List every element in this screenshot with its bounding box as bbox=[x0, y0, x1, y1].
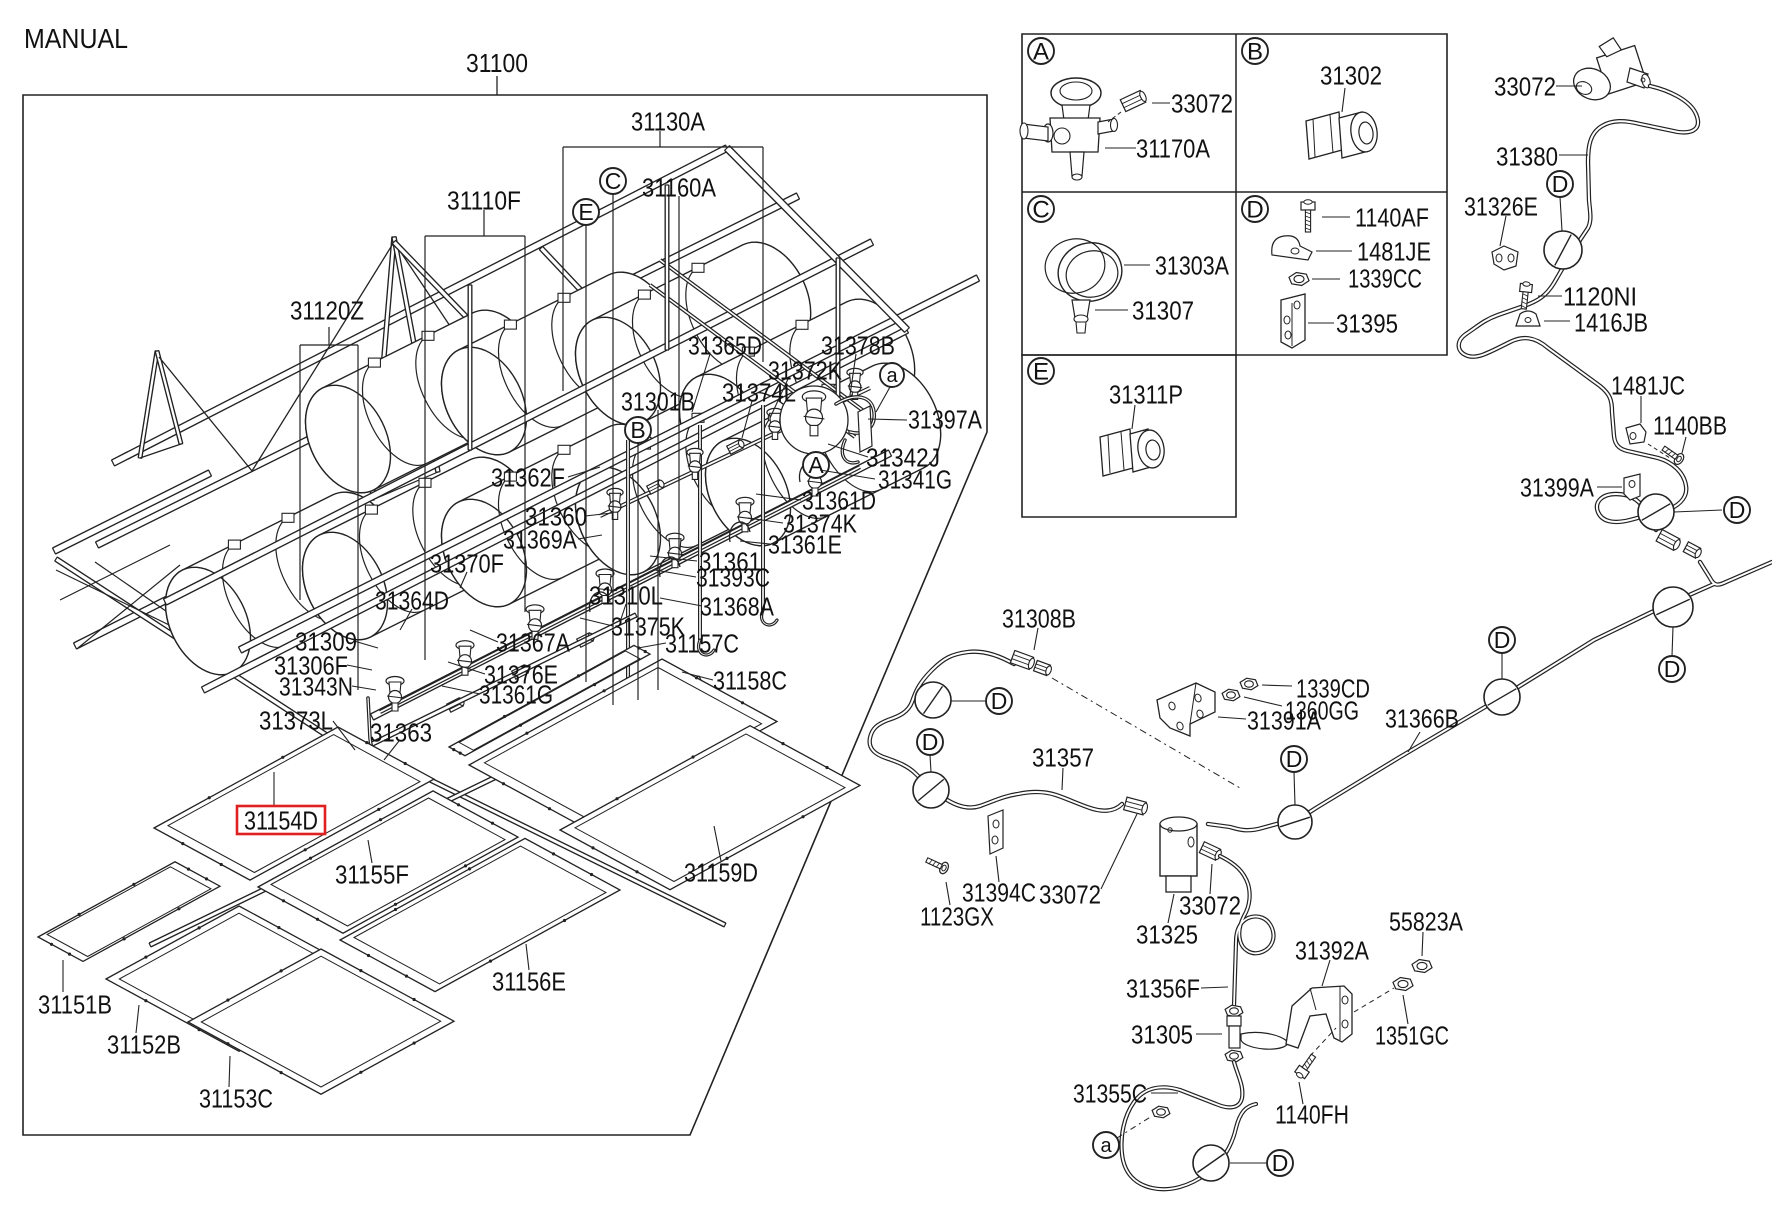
circled D below bbox=[1672, 627, 1673, 656]
label 31367A bbox=[470, 630, 498, 642]
label 31357 bbox=[1062, 768, 1063, 790]
label 31378B bbox=[850, 354, 856, 395]
tank row top bbox=[306, 310, 541, 493]
svg-text:55823A: 55823A bbox=[1389, 907, 1464, 937]
svg-text:31392A: 31392A bbox=[1295, 936, 1370, 966]
label 31366B bbox=[1408, 732, 1420, 752]
extra stems bbox=[627, 700, 642, 715]
svg-text:C: C bbox=[605, 168, 622, 194]
circled D (31380) bbox=[1560, 197, 1562, 231]
panel 31156E bbox=[340, 838, 620, 991]
svg-text:33072: 33072 bbox=[1039, 880, 1101, 910]
label 31364D bbox=[400, 609, 412, 630]
circled D above mid balloon bbox=[1501, 653, 1503, 679]
floor near rail right bbox=[372, 453, 890, 717]
bracket 31394C bbox=[988, 810, 1003, 854]
label 1140BB bbox=[1682, 437, 1686, 453]
label 31100 bbox=[496, 76, 498, 95]
label 31309 bbox=[354, 641, 378, 648]
label 31342J bbox=[828, 444, 868, 457]
svg-text:31364D: 31364D bbox=[375, 586, 449, 616]
label 31362F bbox=[568, 467, 600, 477]
svg-text:31310L: 31310L bbox=[589, 581, 663, 611]
balloon D on 31357 #1 bbox=[915, 682, 951, 718]
clip 1481JC bbox=[1626, 424, 1646, 444]
svg-text:33072: 33072 bbox=[1494, 72, 1556, 102]
label 33072 (pump) bbox=[1556, 85, 1582, 87]
svg-text:31158C: 31158C bbox=[713, 666, 787, 696]
svg-text:1140BB: 1140BB bbox=[1653, 411, 1727, 441]
label 31361 bbox=[650, 556, 697, 561]
label 31361G bbox=[442, 686, 480, 694]
lower manifold pipe bbox=[380, 467, 860, 712]
label 31158C bbox=[682, 672, 713, 680]
circled D right of loop bbox=[1230, 1162, 1266, 1164]
fitting 33072 (filter outlet) bbox=[1199, 842, 1223, 862]
panel 31159D bbox=[560, 726, 860, 890]
screw 1123GX bbox=[924, 855, 950, 876]
label 31308B (left) bbox=[1034, 628, 1038, 650]
label 31152B bbox=[136, 1005, 139, 1033]
svg-text:D: D bbox=[991, 688, 1008, 714]
dash line bracket to nuts bbox=[1354, 988, 1394, 1012]
floor brace d bbox=[60, 545, 170, 600]
panel 31158C bbox=[469, 659, 777, 827]
label 31160A + leader bbox=[678, 196, 680, 560]
balloon D on 31380 bbox=[1544, 231, 1582, 269]
filter 31325 canister bbox=[1160, 824, 1197, 876]
svg-text:E: E bbox=[578, 199, 593, 225]
pigtail loops bbox=[589, 592, 610, 612]
svg-text:D: D bbox=[922, 729, 939, 755]
label 31392A bbox=[1322, 960, 1330, 986]
label 1416JB bbox=[1544, 320, 1570, 322]
svg-text:1140AF: 1140AF bbox=[1355, 203, 1429, 233]
svg-text:33072: 33072 bbox=[1179, 891, 1241, 921]
main assembly border box bbox=[23, 95, 987, 1135]
tall pipe 3 bbox=[761, 405, 765, 610]
svg-text:D: D bbox=[1494, 627, 1511, 653]
label 33072 (filter inlet) bbox=[1101, 814, 1137, 889]
svg-text:31156E: 31156E bbox=[492, 967, 566, 997]
panel 31153C bbox=[188, 949, 454, 1094]
svg-text:31367A: 31367A bbox=[496, 628, 571, 658]
svg-text:31397A: 31397A bbox=[908, 405, 983, 435]
svg-text:31303A: 31303A bbox=[1155, 251, 1230, 281]
loop pipes near a bbox=[842, 440, 858, 463]
svg-text:31369A: 31369A bbox=[503, 525, 578, 555]
label 31376E bbox=[448, 662, 485, 674]
label 31397A bbox=[868, 419, 907, 420]
svg-text:D: D bbox=[1272, 1150, 1289, 1176]
cell E circled letter bbox=[1028, 358, 1054, 384]
nut 1351GC bbox=[1393, 978, 1413, 991]
svg-text:A: A bbox=[1033, 39, 1049, 66]
svg-text:31399A: 31399A bbox=[1520, 473, 1595, 503]
label 31370F bbox=[460, 572, 467, 588]
cell C circled letter bbox=[1028, 196, 1054, 222]
svg-text:31361E: 31361E bbox=[768, 530, 842, 560]
nut 55823A bbox=[1412, 960, 1432, 973]
svg-text:31301B: 31301B bbox=[621, 387, 695, 417]
balloon D mid bbox=[1484, 679, 1520, 715]
vertical post 1 bbox=[468, 285, 473, 450]
svg-text:1481JC: 1481JC bbox=[1611, 371, 1685, 401]
vertical post 2 bbox=[665, 185, 670, 350]
svg-text:D: D bbox=[1552, 171, 1569, 197]
circled D right of balloon bbox=[1674, 510, 1722, 512]
label 1123GX bbox=[946, 882, 950, 905]
dash centre line to bracket bbox=[1052, 678, 1240, 788]
label 1339CC bbox=[1312, 278, 1340, 280]
svg-text:1351GC: 1351GC bbox=[1375, 1021, 1449, 1051]
hose 31355C loop bbox=[1122, 1062, 1257, 1189]
label 33072 (cell A) bbox=[1152, 102, 1170, 104]
valve 31372K cluster bbox=[780, 386, 848, 454]
bracket 31391A bbox=[1157, 683, 1215, 736]
label 31326E bbox=[1500, 216, 1506, 246]
pipe filter to valve (with pigtail) bbox=[1220, 856, 1274, 1006]
cross member C1 right end bbox=[727, 148, 907, 330]
floor strip u bbox=[150, 678, 700, 945]
svg-text:31170A: 31170A bbox=[1136, 134, 1211, 164]
valve 31305 bbox=[1225, 1005, 1243, 1017]
label 31360 bbox=[585, 513, 612, 516]
svg-text:31395: 31395 bbox=[1336, 309, 1398, 339]
svg-text:31305: 31305 bbox=[1131, 1020, 1193, 1050]
svg-text:31153C: 31153C bbox=[199, 1084, 273, 1114]
svg-text:31361G: 31361G bbox=[479, 680, 553, 710]
cell D circled letter bbox=[1242, 196, 1268, 222]
floor brace b bbox=[78, 565, 180, 648]
label 31374L bbox=[742, 401, 752, 438]
svg-text:31368A: 31368A bbox=[700, 592, 775, 622]
svg-text:31356F: 31356F bbox=[1126, 974, 1200, 1004]
floor strip v bbox=[335, 733, 725, 925]
label 1140FH bbox=[1299, 1082, 1303, 1104]
label 1360GG bbox=[1244, 697, 1282, 706]
bracket 31326E bbox=[1492, 246, 1518, 270]
svg-text:31130A: 31130A bbox=[631, 107, 706, 137]
svg-text:1140FH: 1140FH bbox=[1275, 1100, 1349, 1130]
label 31155F bbox=[368, 840, 372, 863]
svg-text:31363: 31363 bbox=[370, 718, 432, 748]
label 31399A bbox=[1597, 486, 1622, 488]
floor edge v-beam bbox=[56, 559, 380, 770]
label 31374K bbox=[748, 518, 783, 523]
svg-text:31357: 31357 bbox=[1032, 743, 1094, 773]
svg-text:31159D: 31159D bbox=[684, 858, 758, 888]
svg-text:31120Z: 31120Z bbox=[290, 296, 364, 326]
fitting 31308B (left) bbox=[1010, 650, 1036, 670]
frame long rail R3 bbox=[165, 242, 872, 602]
svg-text:31100: 31100 bbox=[466, 48, 528, 78]
circled B bbox=[637, 442, 639, 700]
balloon D near filter bbox=[1278, 805, 1312, 839]
fuel pipe 31366B bbox=[1208, 562, 1772, 830]
svg-text:31362F: 31362F bbox=[491, 463, 565, 493]
coupling 31311P drawing bbox=[1100, 429, 1133, 476]
clamp 1416JB bbox=[1516, 311, 1540, 326]
upper manifold pipe bbox=[600, 388, 870, 516]
bracket 31397A target bbox=[858, 406, 872, 452]
label 31356F bbox=[1201, 987, 1228, 988]
cell A circled letter bbox=[1028, 38, 1054, 64]
label 1351GC bbox=[1403, 995, 1408, 1024]
circled C bbox=[612, 193, 614, 705]
frame long rail R4 bbox=[203, 330, 907, 690]
svg-text:31154D: 31154D bbox=[244, 806, 318, 836]
mast tall triangle bbox=[372, 237, 394, 500]
mast small triangle bbox=[140, 351, 157, 458]
svg-text:a: a bbox=[1100, 1135, 1112, 1157]
pipe 31363 bbox=[368, 698, 388, 762]
label 31369A bbox=[578, 535, 602, 539]
fuel pipe 31380 bbox=[1459, 86, 1698, 530]
label 31156E bbox=[526, 944, 529, 970]
tank row bottom bbox=[165, 492, 400, 675]
circled D above bbox=[930, 755, 931, 772]
frame long rail R2 bbox=[97, 196, 798, 545]
svg-text:31325: 31325 bbox=[1136, 920, 1198, 950]
fitting 33072 in cell A bbox=[1120, 89, 1148, 111]
label 31325 bbox=[1168, 894, 1174, 923]
label 31365D bbox=[692, 354, 710, 412]
label 31310L bbox=[620, 604, 626, 622]
circled a bbox=[1117, 1116, 1152, 1138]
cell B circled letter bbox=[1242, 38, 1268, 64]
label 31307 bbox=[1095, 309, 1128, 311]
label 31159D bbox=[714, 826, 721, 861]
label 31380 bbox=[1559, 154, 1588, 156]
frame long rail R3b bbox=[240, 278, 978, 650]
svg-text:D: D bbox=[1246, 197, 1263, 224]
label 55823A bbox=[1422, 932, 1423, 956]
svg-text:a: a bbox=[886, 365, 898, 387]
nut on 31355C bbox=[1152, 1106, 1170, 1118]
label 31341G bbox=[820, 470, 875, 479]
svg-text:31365D: 31365D bbox=[688, 331, 762, 361]
label 31154D red box bbox=[273, 772, 275, 806]
frame long rail R1 bbox=[113, 148, 727, 463]
panel 31154D bbox=[154, 727, 434, 880]
cross member C2 bbox=[541, 248, 705, 422]
label 31375K bbox=[580, 618, 613, 626]
bracket 31395 bbox=[1281, 294, 1305, 348]
panel 31151B bbox=[38, 862, 220, 962]
bracket 31110F leader bbox=[425, 235, 525, 237]
svg-text:31370F: 31370F bbox=[430, 549, 504, 579]
label 31303A bbox=[1124, 264, 1150, 266]
bracket 31399A bbox=[1624, 474, 1640, 500]
svg-text:31393C: 31393C bbox=[696, 563, 770, 593]
svg-text:D: D bbox=[1664, 656, 1681, 682]
svg-text:31110F: 31110F bbox=[447, 186, 521, 216]
svg-text:31302: 31302 bbox=[1320, 61, 1382, 91]
svg-text:D: D bbox=[1729, 497, 1746, 523]
svg-text:33072: 33072 bbox=[1171, 89, 1233, 119]
clamp 1481JE bbox=[1272, 236, 1312, 260]
balloon D top right bbox=[1653, 587, 1693, 627]
bracket 31120Z leader bbox=[300, 344, 358, 346]
svg-text:31366B: 31366B bbox=[1385, 704, 1459, 734]
svg-text:A: A bbox=[808, 452, 824, 478]
label 31153C bbox=[229, 1056, 230, 1087]
svg-text:31308B: 31308B bbox=[1002, 604, 1076, 634]
label 1120NI bbox=[1538, 295, 1562, 297]
floor brace a bbox=[56, 570, 200, 640]
svg-text:31380: 31380 bbox=[1496, 142, 1558, 172]
label 31306F bbox=[347, 665, 372, 670]
svg-text:31151B: 31151B bbox=[38, 990, 112, 1020]
parts table grid bbox=[1022, 34, 1447, 355]
label 31302 bbox=[1342, 88, 1345, 112]
label 1140AF bbox=[1322, 216, 1350, 218]
right end pipe v2 bbox=[650, 285, 855, 437]
circled E bbox=[585, 225, 587, 682]
label 1339CD bbox=[1262, 685, 1292, 686]
tall pipe 31310L bbox=[626, 440, 630, 700]
label 31361D bbox=[756, 494, 801, 500]
svg-text:31374L: 31374L bbox=[722, 378, 796, 408]
bolt 1140FH bbox=[1294, 1052, 1319, 1080]
label 33072 (outlet) bbox=[1210, 864, 1212, 894]
label 31355C bbox=[1151, 1092, 1178, 1094]
rail 31373L bbox=[229, 615, 636, 814]
svg-text:1339CC: 1339CC bbox=[1348, 264, 1422, 294]
label 31157C bbox=[638, 643, 666, 648]
circled D right bbox=[951, 700, 985, 702]
fitting 31307 stem bbox=[1072, 300, 1090, 318]
circled a bbox=[876, 387, 890, 412]
panel 31157C strip bbox=[449, 645, 650, 755]
svg-text:31355C: 31355C bbox=[1073, 1079, 1147, 1109]
svg-text:B: B bbox=[1247, 39, 1263, 66]
fitting 33072 (filter inlet) bbox=[1124, 797, 1149, 815]
svg-text:31311P: 31311P bbox=[1109, 380, 1183, 410]
label 31151B bbox=[62, 960, 64, 992]
tall pipe 2 bbox=[698, 425, 702, 640]
svg-text:E: E bbox=[1033, 359, 1049, 386]
cross member C3 bbox=[394, 242, 563, 417]
bracket 31392A bbox=[1286, 986, 1352, 1048]
label 31391A bbox=[1218, 717, 1246, 719]
svg-text:1416JB: 1416JB bbox=[1574, 308, 1648, 338]
bolt 1140AF bbox=[1301, 200, 1315, 232]
valve row upper bbox=[607, 488, 623, 496]
balloon D on 31355C bbox=[1193, 1145, 1229, 1181]
X braces bbox=[159, 357, 252, 471]
svg-text:31307: 31307 bbox=[1132, 296, 1194, 326]
label 1481JE bbox=[1316, 250, 1352, 252]
svg-text:31160A: 31160A bbox=[642, 173, 717, 203]
bolt 1120NI bbox=[1518, 281, 1533, 309]
valve 31170A drawing bbox=[1051, 78, 1101, 108]
fitting 31308B (right pipe end) bbox=[1656, 530, 1682, 552]
nut 1360GG bbox=[1222, 689, 1240, 701]
svg-text:31341G: 31341G bbox=[878, 465, 952, 495]
pump 33072 drawing (top right) bbox=[1592, 32, 1646, 94]
valve row lower bbox=[386, 677, 404, 686]
svg-text:31343N: 31343N bbox=[279, 672, 353, 702]
coupling 31302 drawing bbox=[1306, 112, 1342, 159]
label 31368A bbox=[660, 598, 702, 606]
label 31395 bbox=[1308, 322, 1334, 324]
svg-text:31155F: 31155F bbox=[335, 860, 409, 890]
clamp ring 31303A drawing bbox=[1052, 236, 1129, 309]
panel 31155F bbox=[258, 791, 518, 933]
bracket 31130A leader bbox=[563, 146, 763, 148]
label 1481JC bbox=[1640, 396, 1642, 423]
svg-text:D: D bbox=[1286, 746, 1303, 772]
label 31372K bbox=[770, 379, 788, 418]
svg-text:31373L: 31373L bbox=[259, 706, 333, 736]
label 31361E bbox=[740, 541, 770, 544]
extra fittings row bbox=[647, 479, 666, 495]
circled D above filter balloon bbox=[1294, 772, 1295, 805]
label 31363 bbox=[384, 741, 399, 760]
svg-text:31157C: 31157C bbox=[665, 629, 739, 659]
svg-text:B: B bbox=[630, 417, 645, 443]
svg-text:C: C bbox=[1032, 197, 1049, 224]
label 31305 bbox=[1196, 1033, 1222, 1035]
label 31170A bbox=[1105, 147, 1136, 149]
floor rail left near bbox=[75, 588, 190, 646]
nut 1339CC bbox=[1289, 273, 1309, 286]
panel 31152B bbox=[106, 906, 372, 1051]
svg-text:1360GG: 1360GG bbox=[1285, 696, 1359, 726]
label 31311P bbox=[1132, 405, 1135, 429]
right end pipe v1 bbox=[660, 260, 869, 415]
label 31343N bbox=[352, 686, 376, 690]
circled A bbox=[803, 452, 829, 478]
label 31373L bbox=[333, 721, 355, 750]
svg-text:31326E: 31326E bbox=[1464, 192, 1538, 222]
svg-text:1123GX: 1123GX bbox=[920, 902, 994, 932]
nut 1339CD bbox=[1240, 678, 1258, 690]
floor rail left far bbox=[54, 473, 210, 551]
fuel pipe 31357 bbox=[870, 652, 1122, 811]
svg-text:1481JE: 1481JE bbox=[1357, 237, 1431, 267]
label 31393C bbox=[655, 570, 696, 577]
balloon D on 31357 #2 bbox=[913, 772, 949, 808]
label 31394C bbox=[996, 856, 999, 882]
svg-text:MANUAL: MANUAL bbox=[24, 23, 128, 54]
label 31301B + leader bbox=[657, 410, 659, 690]
screw 1140BB bbox=[1660, 443, 1686, 466]
vertical post 3 bbox=[836, 258, 841, 420]
svg-text:31152B: 31152B bbox=[107, 1030, 181, 1060]
floor brace c bbox=[95, 562, 215, 645]
